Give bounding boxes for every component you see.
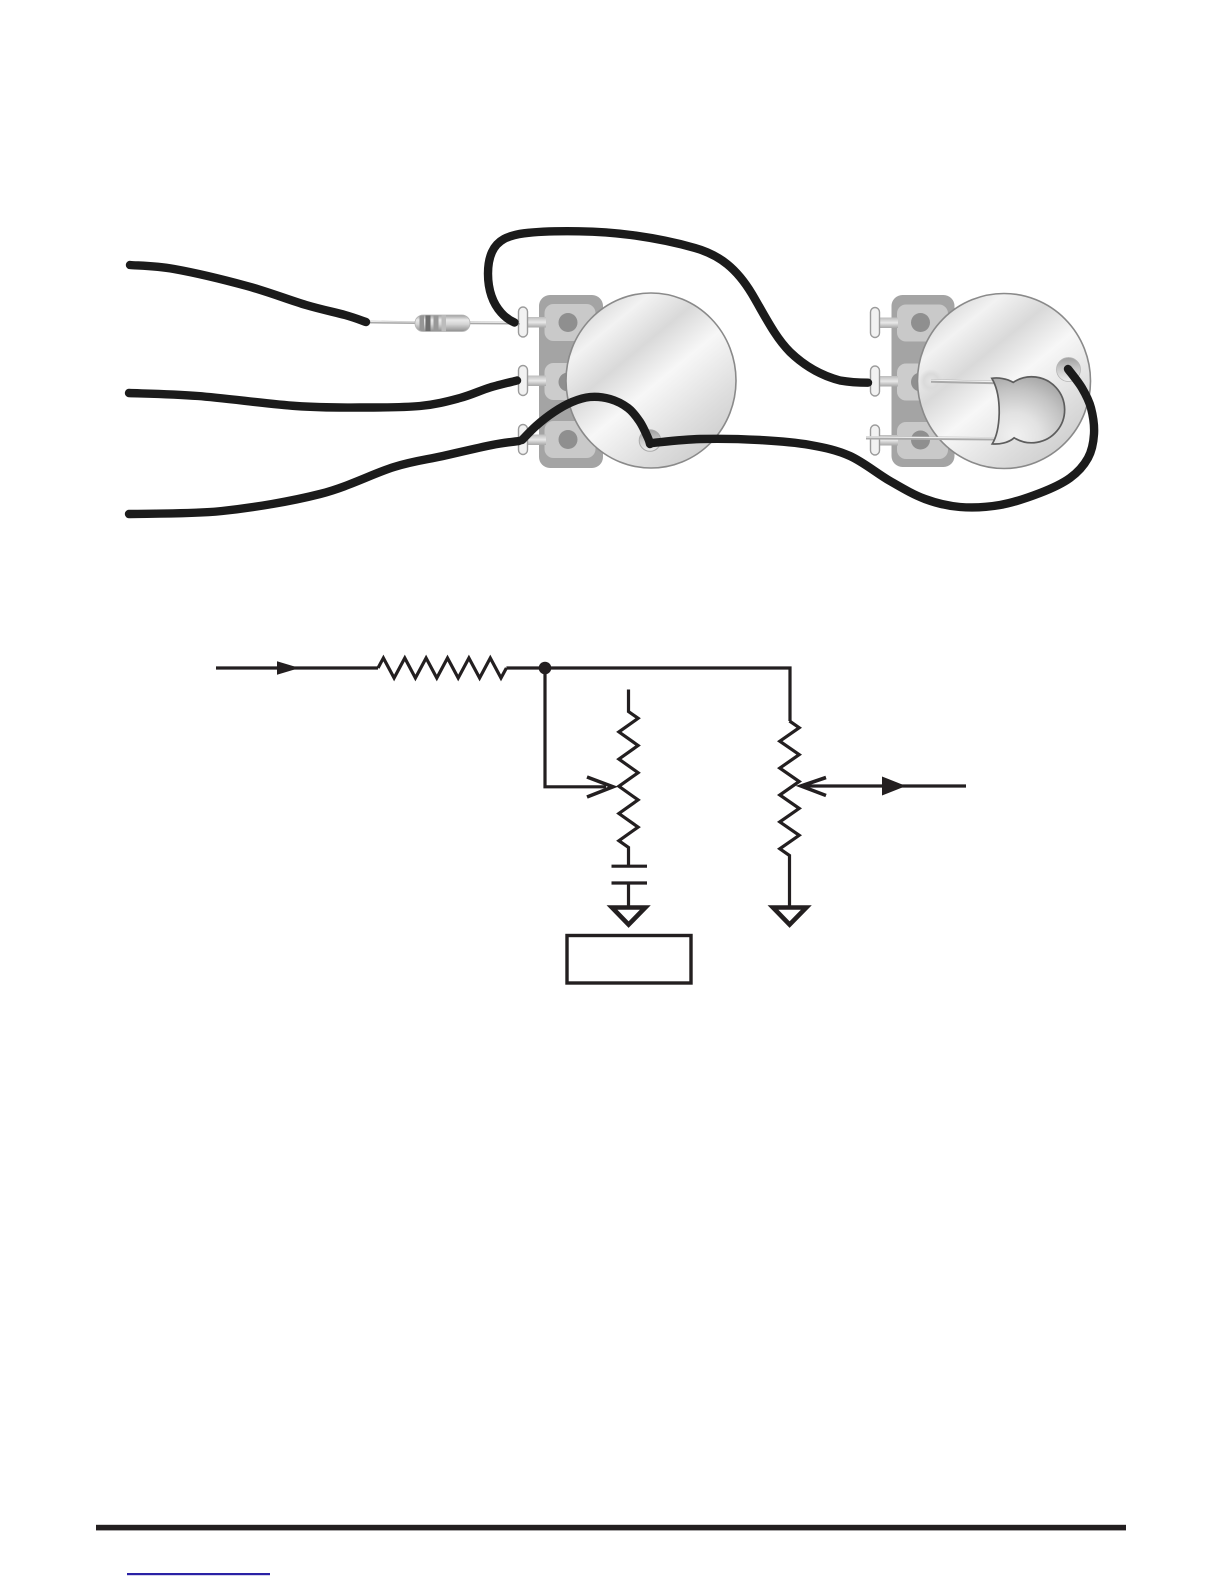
- wire: VR1 case to VR2 case ground link: [652, 369, 1094, 507]
- resistor R1 body: [415, 315, 470, 332]
- footer link underline: [127, 1573, 270, 1575]
- VR2 lug3 stem: [875, 435, 898, 446]
- VR2 lug1 terminal: [871, 308, 880, 338]
- VR2 mounting plate: [892, 295, 955, 467]
- footer rule: [96, 1525, 1126, 1531]
- label box: [567, 936, 691, 984]
- VR1 lug1 base: [545, 304, 596, 341]
- VR1 lug2 terminal: [519, 366, 528, 396]
- resistor R1 left lead: [363, 321, 416, 324]
- VR1 lug3 terminal: [519, 425, 528, 455]
- input arrowhead: [277, 661, 300, 675]
- VR1 lug1 terminal: [519, 307, 528, 337]
- VR2 ground solder pad: [1057, 358, 1081, 382]
- ground symbol below VR2: [773, 908, 806, 925]
- VR2 wiper direction arrowhead: [882, 777, 906, 796]
- resistor R1 right lead: [469, 321, 520, 324]
- SCHEMATIC: [216, 658, 966, 908]
- resistor R1 symbol: [378, 658, 506, 678]
- VR1 lug1 hole: [559, 313, 578, 332]
- node A junction dot: [539, 662, 552, 675]
- wire from R1 to node A: [506, 666, 545, 669]
- potentiometer VR2 symbol: [780, 721, 799, 908]
- VR2 lug2 terminal: [871, 366, 880, 396]
- wire node A to VR2 top: [545, 668, 790, 721]
- VR2 lug2 base: [897, 364, 948, 401]
- VR2 lug1 stem: [875, 318, 898, 329]
- VR1 lug2 base: [545, 363, 596, 400]
- capacitor C1 bottom lead: [866, 438, 996, 439]
- capacitor C1 body: [992, 377, 1065, 444]
- wire: lower-left to VR1 lug3: [129, 441, 519, 514]
- VR2 lug2 stem: [875, 376, 898, 387]
- ground symbol below C1: [612, 908, 645, 925]
- VR2 lug1 hole: [911, 313, 930, 332]
- wire: VR1 lug3 arc to VR1 case solder joint: [522, 397, 650, 444]
- VR1 lug1 stem: [523, 317, 546, 328]
- VR2 lug3 terminal: [871, 425, 880, 455]
- wire node A down to VR1 wiper: [545, 668, 606, 787]
- VR2 body: [918, 294, 1091, 469]
- capacitor C1 symbol top plate: [612, 865, 648, 868]
- capacitor C1 top lead: [931, 381, 996, 383]
- VR1 lug3 hole: [559, 430, 578, 449]
- VR2 wiper wire: [804, 784, 966, 787]
- VR2 wiper arrowhead: [801, 778, 826, 796]
- VR1 wiper arrowhead: [587, 777, 613, 797]
- VR2 lug1 base: [897, 305, 948, 342]
- VR2 lug2 hole: [911, 373, 930, 392]
- VR2 wiper-lead solder bump: [919, 369, 943, 393]
- VR1 body: [566, 293, 736, 468]
- ILLUSTRATION: right potentiometer VR2: [866, 294, 1091, 469]
- VR1 lug3 base: [545, 421, 596, 458]
- VR2 lug3 hole: [911, 431, 930, 450]
- VR1 mounting plate: [539, 295, 603, 468]
- VR1 lug3 stem: [523, 435, 546, 446]
- wire: loop from VR1 lug1 to VR2 lug2: [488, 231, 868, 383]
- potentiometer VR1 symbol: [619, 690, 638, 867]
- VR1 lug2 stem: [523, 376, 546, 387]
- wire: upper-left lead-in to resistor R1: [130, 265, 366, 322]
- input wire: [216, 666, 378, 669]
- wire: middle-left to VR1 lug2: [129, 381, 517, 408]
- capacitor C1 symbol bottom plate: [612, 881, 648, 884]
- VR2 lug3 base: [897, 422, 948, 459]
- wire C1 to ground: [627, 883, 630, 908]
- ILLUSTRATION: left potentiometer VR1: [519, 293, 737, 468]
- VR1 lug2 hole: [559, 373, 578, 392]
- VR1 case solder joint: [639, 430, 661, 452]
